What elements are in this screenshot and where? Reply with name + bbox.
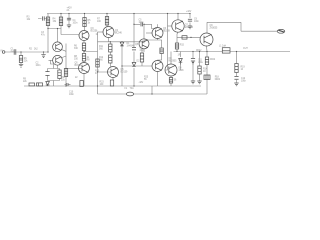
diode D5 rail xyxy=(46,82,50,87)
terminal OUT xyxy=(277,29,285,33)
transistor Q2 xyxy=(53,55,63,65)
svg-text:0R22: 0R22 xyxy=(196,50,202,52)
junction dots xyxy=(47,51,48,52)
transistor Q7 driver xyxy=(172,20,184,32)
wire input shunt xyxy=(43,52,45,54)
resistor R18 lower sense xyxy=(204,75,210,80)
wire output top collector xyxy=(206,22,208,33)
wire bottom corner link xyxy=(97,86,99,94)
svg-text:MJE340: MJE340 xyxy=(185,27,194,29)
wire R4 drop xyxy=(60,14,62,35)
wire Q6L links xyxy=(157,72,159,87)
wire x166 vertical xyxy=(165,14,168,71)
svg-text:4148: 4148 xyxy=(179,70,185,72)
resistor R16 emitter low driver xyxy=(169,78,172,84)
wire Q2 collector leg xyxy=(57,65,59,69)
transistor Q5 xyxy=(79,63,90,74)
wire Q1 emitter stubs xyxy=(61,49,66,58)
capacitor C12 zobel xyxy=(234,77,238,80)
svg-text:100n: 100n xyxy=(73,23,79,25)
resistor R23 on rail xyxy=(110,80,113,86)
capacitor C9 xyxy=(188,19,192,21)
transistor Q4 xyxy=(103,27,114,38)
wire Q4 base xyxy=(98,31,104,33)
svg-text:100p: 100p xyxy=(139,22,145,24)
wire bias stack xyxy=(109,42,111,67)
wire left cap branch xyxy=(38,18,48,20)
wire R7 drop xyxy=(106,14,108,27)
capacitor C6 x134 xyxy=(132,48,136,50)
transistor Q6 xyxy=(152,28,163,39)
svg-text:BD139: BD139 xyxy=(121,72,129,74)
capacitor C7 rail electrolytic xyxy=(37,83,43,86)
terminal IN xyxy=(2,51,5,54)
wire bottom rail xyxy=(24,85,201,87)
svg-text:BC556: BC556 xyxy=(91,31,99,33)
svg-text:L1 2uH: L1 2uH xyxy=(219,46,226,48)
inductor L1 with resistor xyxy=(222,48,230,53)
svg-text:1N4148: 1N4148 xyxy=(127,46,136,48)
wire Q3 emitter chain xyxy=(83,41,85,44)
fuse F1 xyxy=(126,92,133,96)
wire mid divider xyxy=(84,51,98,63)
capacitor C11 electrolytic xyxy=(191,59,195,63)
resistor R4 xyxy=(59,17,62,26)
ground input xyxy=(19,64,23,67)
wire out jog xyxy=(207,22,277,31)
svg-text:+42V: +42V xyxy=(186,11,192,13)
resistor R17 output emitter xyxy=(205,57,208,65)
resistor R25 xyxy=(140,53,143,62)
svg-text:100u: 100u xyxy=(198,62,204,64)
resistor R26 base series xyxy=(182,36,187,39)
svg-text:100n: 100n xyxy=(241,81,247,83)
svg-text:T4A: T4A xyxy=(130,87,135,90)
wire driver low collector xyxy=(170,76,172,86)
ground C11 xyxy=(191,81,195,84)
resistor R3 top-left xyxy=(46,17,49,26)
wire diode D4 drop xyxy=(180,52,182,71)
wire Q6 collector xyxy=(157,24,159,27)
wire output top emitter xyxy=(206,46,209,52)
wire top supply rail xyxy=(47,13,190,15)
svg-text:MJ2955: MJ2955 xyxy=(169,61,178,63)
capacitor C2 left branch xyxy=(43,16,45,20)
transistor Q6L xyxy=(152,61,163,72)
svg-text:100n: 100n xyxy=(36,65,42,67)
wire supply return line xyxy=(98,93,208,95)
diode D4 xyxy=(179,59,183,65)
wire Q5c emitter xyxy=(143,49,145,52)
resistor R20 feedback xyxy=(58,70,61,79)
ground fb cap xyxy=(41,55,45,58)
wire R14 branch xyxy=(199,52,201,82)
wire LTP tail xyxy=(65,44,67,87)
wire zobel branch xyxy=(236,52,238,83)
wire output lower stack xyxy=(206,52,208,95)
svg-text:BC546: BC546 xyxy=(75,65,83,67)
resistor R9 rail series xyxy=(29,83,35,86)
svg-text:-42V: -42V xyxy=(139,82,144,84)
wire R5 drop xyxy=(84,14,86,31)
ground decoupling xyxy=(67,25,71,28)
resistor R27 xyxy=(160,48,163,54)
wire feedback leg xyxy=(48,60,60,86)
svg-text:1R: 1R xyxy=(178,55,181,57)
wire Q5c collector xyxy=(143,24,145,39)
capacitor C4 decoupling xyxy=(67,18,71,20)
resistor R1 xyxy=(19,56,22,63)
wire x134 vertical xyxy=(133,14,135,87)
ground C9 xyxy=(188,26,192,29)
wire C11 branch xyxy=(192,52,194,82)
wire decoupling drop xyxy=(68,14,70,26)
svg-text:100n: 100n xyxy=(194,21,200,23)
wire Q7 base xyxy=(168,25,172,27)
transistor Q8L driver low xyxy=(165,64,177,76)
resistor R11 bias1 xyxy=(109,44,112,52)
capacitor C1 xyxy=(14,49,16,54)
resistor R6 mid upper xyxy=(82,43,85,51)
resistor R8 mid lower xyxy=(82,54,85,62)
wire Q5 to rail xyxy=(83,74,85,87)
wire R1 shunt xyxy=(20,52,22,64)
wire cap C9 drop xyxy=(189,14,191,27)
ground R14 xyxy=(197,81,201,84)
wire Q5b vertical xyxy=(98,72,114,80)
wire C5 line xyxy=(134,24,157,28)
capacitor C8 feedback xyxy=(45,72,49,76)
transistor Q9 output xyxy=(200,33,213,46)
svg-text:IN: IN xyxy=(1,51,4,53)
resistor R19 zobel xyxy=(235,64,238,73)
resistor R22 on rail xyxy=(80,81,83,87)
wire y40 bus xyxy=(98,41,145,43)
transistor Q5b xyxy=(108,67,119,78)
wire Q5 base xyxy=(66,68,82,70)
wire Q6L base link xyxy=(122,48,152,66)
ground zobel xyxy=(234,83,238,86)
wire Q6 base link xyxy=(146,32,153,34)
resistor R10 x96 xyxy=(96,59,99,67)
transistor Q5c xyxy=(139,39,149,49)
wire x96 vertical xyxy=(97,32,99,86)
transistor Q3 xyxy=(79,31,89,41)
resistor R12 bias2 xyxy=(109,55,112,63)
wire driver low emitter xyxy=(170,52,172,65)
wire LTP collector link xyxy=(48,29,79,43)
svg-text:BD139: BD139 xyxy=(163,31,171,33)
wire input line xyxy=(5,51,48,53)
transistor Q1 xyxy=(53,42,63,52)
resistor R14 xyxy=(198,66,201,74)
capacitor C5 xyxy=(141,22,143,26)
resistor R15 base series xyxy=(175,43,178,49)
capacitor C10 on rail xyxy=(66,83,68,86)
svg-text:BC546: BC546 xyxy=(115,33,123,35)
svg-text:2N3055: 2N3055 xyxy=(210,28,219,30)
wire Q6 emitter xyxy=(144,38,162,61)
wire driver top emitter xyxy=(177,32,201,51)
wire Q3 base stub xyxy=(78,35,81,36)
wire rail link xyxy=(151,86,153,94)
resistor tail R24 xyxy=(64,69,67,77)
resistor R5 xyxy=(83,18,86,27)
wire driver top collector xyxy=(177,14,179,20)
diode D1 xyxy=(120,42,124,46)
diode D2 x134 xyxy=(132,63,136,67)
svg-text:0R22: 0R22 xyxy=(215,79,221,81)
wire output node line xyxy=(174,51,291,53)
svg-text:OUT: OUT xyxy=(243,48,248,50)
wire diode drop xyxy=(121,42,123,86)
svg-text:100n: 100n xyxy=(69,94,75,96)
svg-text:0R22: 0R22 xyxy=(210,59,216,61)
resistor R7 xyxy=(105,17,108,26)
wire left bias vertical xyxy=(47,14,49,53)
wire Q4 emitter xyxy=(108,38,110,42)
